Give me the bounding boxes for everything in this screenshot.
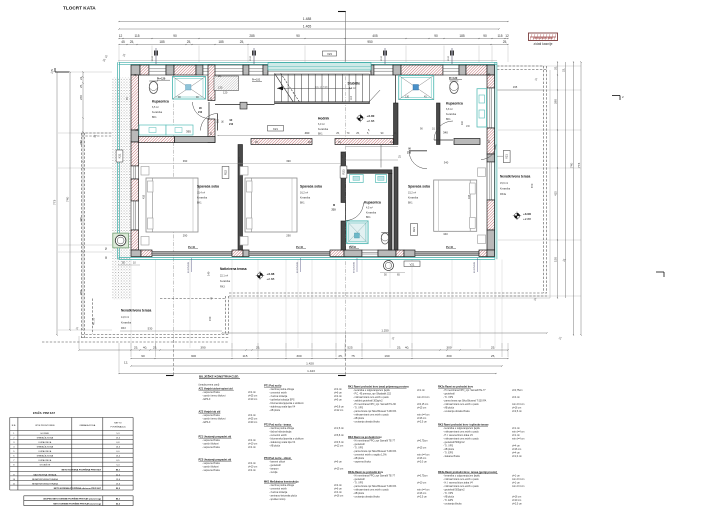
svg-text:min d=4 cm: min d=4 cm [417,396,429,399]
svg-text:285: 285 [249,34,255,38]
svg-text:25,: 25, [240,40,245,44]
svg-text:760: 760 [79,290,83,295]
svg-text:d=2,5 cm: d=2,5 cm [512,503,522,506]
svg-text:1.465: 1.465 [303,25,312,29]
svg-text:OBRADA PODA: OBRADA PODA [79,424,95,427]
svg-text:Spavaća soba: Spavaća soba [300,185,322,189]
svg-text:d=12 cm: d=12 cm [334,445,343,448]
svg-text:d=20 cm: d=20 cm [248,421,257,424]
svg-text:d=2,0 cm: d=2,0 cm [417,461,427,464]
svg-text:Keramika: Keramika [366,212,377,215]
svg-text:d=0,75cm: d=0,75cm [512,389,523,392]
svg-text:- AB ploča: - AB ploča [269,445,281,448]
svg-text:NETO KORISNA POVRŠINA PRVI KA: NETO KORISNA POVRŠINA PRVI KAT [62,468,102,471]
svg-text:BK1: BK1 [366,216,371,219]
svg-text:130: 130 [405,96,410,99]
svg-text:BK1: BK1 [152,116,157,119]
svg-text:6,5 m²: 6,5 m² [152,106,159,109]
svg-text:25,: 25, [338,141,342,144]
svg-text:10,: 10, [393,132,397,135]
svg-text:260: 260 [79,95,83,100]
svg-text:- vapnena žbuka: - vapnena žbuka [353,461,371,464]
svg-text:Keramika: Keramika [408,197,419,200]
svg-text:- spušteni strop: - spušteni strop [269,498,286,501]
svg-text:Keramika: Keramika [300,197,311,200]
svg-text:950: 950 [367,40,373,44]
svg-text:90: 90 [296,34,300,38]
svg-text:280: 280 [79,140,83,145]
svg-text:+2.88: +2.88 [367,119,375,123]
svg-text:290: 290 [286,233,291,237]
svg-text:90/25: 90/25 [250,55,252,61]
svg-text:Stubište: Stubište [348,82,361,86]
svg-text:22,: 22, [79,76,83,80]
svg-text:- vapnena žbuka: - vapnena žbuka [202,469,220,472]
svg-text:d=12 cm: d=12 cm [334,409,343,412]
svg-text:Keramika: Keramika [152,111,163,114]
svg-text:90: 90 [141,354,145,358]
svg-text:25,: 25, [397,346,401,350]
svg-text:1.488: 1.488 [303,17,312,21]
svg-text:Keramika: Keramika [121,322,132,325]
svg-text:Nenatkrivena terasa: Nenatkrivena terasa [121,309,152,313]
svg-text:- unutarnja obrada žbuka: - unutarnja obrada žbuka [443,410,470,413]
svg-text:R21: R21 [412,227,416,232]
svg-text:340: 340 [443,232,448,236]
svg-text:395: 395 [186,130,191,134]
svg-text:190: 190 [384,354,389,358]
svg-text:- unutarnja obrada žbuka: - unutarnja obrada žbuka [353,496,380,499]
svg-text:773: 773 [577,163,581,168]
svg-text:d=2,5 cm: d=2,5 cm [417,421,427,424]
svg-text:1.443: 1.443 [307,369,315,373]
svg-text:K21: K21 [273,127,278,131]
svg-text:12: 12 [505,34,509,38]
svg-text:280: 280 [553,99,557,104]
svg-text:300: 300 [446,354,451,358]
svg-text:d=10 cm: d=10 cm [417,482,426,485]
svg-text:POVRŠINA(m2): POVRŠINA(m2) [110,426,125,429]
svg-text:d=0,75cm: d=0,75cm [417,440,428,443]
svg-text:10,: 10, [432,128,436,131]
svg-text:BK1: BK1 [446,118,451,121]
svg-text:340: 340 [443,131,448,135]
svg-text:- EPS-F: - EPS-F [202,421,211,424]
svg-text:Keramika: Keramika [220,280,231,283]
svg-text:140: 140 [207,271,211,276]
svg-text:25,: 25, [187,40,192,44]
svg-text:25,: 25, [503,40,508,44]
svg-text:R23: R23 [342,169,346,174]
svg-text:RK3: RK3 [220,286,225,289]
svg-text:300: 300 [446,346,451,350]
svg-text:SPAVAĆA SOBA: SPAVAĆA SOBA [37,446,54,449]
svg-text:20,: 20, [308,141,312,144]
svg-text:V23: V23 [327,52,332,56]
svg-text:90: 90 [173,34,177,38]
svg-text:min d=4 cm: min d=4 cm [512,485,524,488]
svg-text:d=1,0 cm: d=1,0 cm [512,455,522,458]
svg-text:25,: 25, [134,346,138,350]
svg-text:5,: 5, [368,129,370,132]
svg-text:6,0 m²: 6,0 m² [318,123,325,126]
svg-text:110: 110 [350,96,353,100]
svg-text:25,: 25, [336,132,340,135]
svg-text:90: 90 [434,34,438,38]
svg-text:25,: 25, [256,346,260,350]
svg-text:d=15 cm: d=15 cm [417,407,426,410]
svg-text:d=10 cm: d=10 cm [248,398,257,401]
svg-text:490: 490 [305,131,310,135]
svg-text:- unutarnja žbuka: - unutarnja žbuka [443,503,462,506]
svg-text:M: M [333,204,335,207]
svg-text:Spavaća soba: Spavaća soba [408,185,430,189]
svg-text:KUPAONICA: KUPAONICA [38,459,51,462]
svg-text:25,: 25, [255,141,259,144]
svg-text:BK1: BK1 [197,202,202,205]
svg-text:OPIS PROSTORIJE: OPIS PROSTORIJE [35,425,55,427]
svg-text:25,: 25, [79,84,83,88]
svg-text:525: 525 [347,346,352,350]
svg-text:340: 340 [444,160,449,164]
svg-text:SPAVAĆA SOBA: SPAVAĆA SOBA [37,455,54,458]
svg-text:Keramika: Keramika [500,188,511,191]
svg-text:BK1: BK1 [300,202,305,205]
svg-text:R22: R22 [224,170,228,175]
svg-text:150: 150 [208,316,212,321]
svg-text:115: 115 [134,34,139,38]
svg-text:Nenatkrivena terasa: Nenatkrivena terasa [500,175,531,179]
svg-text:25,: 25, [491,346,495,350]
svg-text:d=2 cm: d=2 cm [248,446,256,449]
svg-text:773: 773 [53,200,57,205]
svg-text:210: 210 [332,209,337,212]
svg-text:d=5 cm: d=5 cm [334,399,342,402]
svg-text:115: 115 [497,34,502,38]
svg-text:- AB ploča: - AB ploča [269,409,281,412]
svg-text:TLOCRT KATA: TLOCRT KATA [63,6,96,11]
svg-text:BILJEŠKE KONSTRUKCIJE:: BILJEŠKE KONSTRUKCIJE: [199,374,239,379]
svg-text:5,: 5, [367,132,369,135]
svg-text:d=2,5 cm: d=2,5 cm [512,410,522,413]
svg-text:45: 45 [121,40,125,44]
svg-text:HODNIK: HODNIK [41,433,50,435]
svg-text:870: 870 [530,183,534,188]
svg-text:Kupaonica: Kupaonica [446,102,463,106]
svg-text:90 225/245: 90 225/245 [188,261,190,273]
svg-text:1.250: 1.250 [381,329,389,333]
svg-text:+2.88: +2.88 [267,277,275,281]
svg-text:415: 415 [143,194,146,199]
svg-text:SPAVAĆA SOBA: SPAVAĆA SOBA [37,437,54,440]
svg-text:110: 110 [217,118,220,123]
svg-text:NETTO: NETTO [114,423,122,425]
svg-text:740: 740 [66,197,70,202]
svg-text:d=16 cm: d=16 cm [334,495,343,498]
svg-text:25,: 25, [130,40,135,44]
svg-text:15,4 m²: 15,4 m² [197,192,205,195]
svg-text:M: M [409,148,411,151]
svg-text:d=0,75cm: d=0,75cm [417,475,428,478]
svg-text:390: 390 [286,159,291,163]
svg-text:90 225/245: 90 225/245 [297,261,299,273]
svg-text:KUPAONICA: KUPAONICA [38,450,51,453]
svg-text:- vlakana žbuka: - vlakana žbuka [443,455,460,458]
svg-text:405: 405 [372,34,378,38]
svg-text:290: 290 [183,233,188,237]
svg-text:6,8 m²: 6,8 m² [446,108,453,111]
svg-text:(izrada prema card): (izrada prema card) [199,384,220,387]
svg-text:d=6 cm: d=6 cm [334,461,342,464]
svg-text:22,1 m²: 22,1 m² [220,275,228,278]
svg-text:4,5 m²: 4,5 m² [366,207,373,210]
svg-text:RK3: RK3 [121,327,126,330]
svg-text:Keramika: Keramika [318,128,329,131]
svg-text:90: 90 [483,34,487,38]
svg-text:NENATKRIVENA TERASA: NENATKRIVENA TERASA [32,482,59,485]
svg-text:d=2 cm: d=2 cm [248,469,256,472]
svg-text:d=15 cm: d=15 cm [417,447,426,450]
svg-text:- unutarnja obrada žbuka: - unutarnja obrada žbuka [353,421,380,424]
svg-text:K31: K31 [118,153,122,158]
svg-text:90 225/245: 90 225/245 [354,261,356,273]
svg-text:25,: 25, [218,75,222,78]
svg-text:185: 185 [218,40,224,44]
svg-text:BK1: BK1 [318,133,323,136]
svg-text:210: 210 [198,111,203,114]
svg-text:390: 390 [200,346,205,350]
svg-text:90/25: 90/25 [381,55,383,61]
svg-text:d=2,5 cm: d=2,5 cm [417,496,427,499]
svg-text:+2.88: +2.88 [523,217,531,221]
svg-text:10x 17,7/28: 10x 17,7/28 [315,86,328,89]
svg-text:15,2 m²: 15,2 m² [408,192,416,195]
svg-text:+3.00: +3.00 [367,114,375,118]
svg-text:390: 390 [183,159,188,163]
svg-text:12,: 12, [124,361,128,365]
svg-text:150: 150 [553,257,557,262]
svg-text:Natkrivena terasa: Natkrivena terasa [220,267,247,271]
svg-text:415: 415 [553,191,557,196]
svg-text:40, 50: 40, 50 [92,317,96,325]
svg-text:90 225/245: 90 225/245 [474,261,476,273]
svg-text:BK1: BK1 [408,202,413,205]
svg-text:16,2 m²: 16,2 m² [300,192,308,195]
svg-text:5,4 m²: 5,4 m² [349,87,356,90]
svg-text:- EPS-F: - EPS-F [202,398,211,401]
svg-text:d=5,8 cm: d=5,8 cm [334,434,344,437]
svg-text:Spavaća soba: Spavaća soba [197,185,219,189]
svg-text:R.B.: R.B. [12,425,17,427]
svg-text:V21: V21 [410,263,415,267]
svg-text:25,: 25, [553,66,557,70]
svg-text:110: 110 [461,120,464,125]
svg-text:1.420: 1.420 [306,362,314,366]
svg-text:75: 75 [351,354,355,358]
svg-text:25,: 25, [338,354,342,358]
svg-text:Kupaonica: Kupaonica [364,201,381,205]
svg-text:Keramika: Keramika [446,113,457,116]
svg-text:Pr=100: Pr=100 [252,79,261,82]
svg-text:UKUPNO NETO KORISNE POVRŠINE P: UKUPNO NETO KORISNE POVRŠINE PRVI KAT (z… [43,498,101,501]
svg-text:25,: 25, [153,346,157,350]
svg-text:90/25: 90/25 [448,55,450,61]
svg-text:115: 115 [243,354,248,358]
svg-text:NETO KORISNA POVRŠINA otkriven: NETO KORISNA POVRŠINA otkrivena PRVI KAT [54,487,102,490]
svg-text:185: 185 [459,34,465,38]
svg-text:740: 740 [569,163,573,168]
svg-text:+3.08: +3.08 [523,212,531,216]
svg-text:Keramika: Keramika [197,197,208,200]
svg-text:40,: 40, [143,346,147,350]
svg-text:210: 210 [229,123,234,126]
svg-text:25,: 25, [356,132,360,135]
svg-text:+3.08: +3.08 [267,272,275,276]
svg-text:d=1 cm: d=1 cm [417,389,425,392]
svg-text:15,6 m²: 15,6 m² [500,182,508,185]
svg-text:40,: 40, [405,346,409,350]
svg-text:d=1,5 cm: d=1,5 cm [334,427,344,430]
svg-text:zidati kasnije: zidati kasnije [534,42,553,46]
svg-text:120: 120 [223,91,228,95]
svg-text:195: 195 [513,85,518,89]
svg-text:V21: V21 [505,154,509,159]
svg-text:12: 12 [119,34,123,38]
svg-text:d=15 cm: d=15 cm [334,468,343,471]
svg-text:530: 530 [148,327,153,331]
svg-text:RK3a: RK3a [500,193,507,196]
svg-text:Kupaonica: Kupaonica [152,100,169,104]
svg-text:10,: 10, [390,141,394,144]
svg-text:NETO KORISNE POVRŠINE PRVI KA: NETO KORISNE POVRŠINE PRVI KAT (otvoreno… [53,502,101,505]
svg-text:NENATKRIVENA TERASA: NENATKRIVENA TERASA [32,478,59,481]
svg-text:d=4 cm: d=4 cm [512,396,520,399]
svg-text:185: 185 [159,40,165,44]
svg-text:300: 300 [191,354,196,358]
svg-text:22,: 22, [561,68,565,72]
svg-text:25,: 25, [491,354,495,358]
svg-text:210: 210 [407,152,412,155]
svg-text:KUPAONICA: KUPAONICA [38,441,51,444]
svg-text:NATKRIVENA TERASA: NATKRIVENA TERASA [33,473,57,476]
svg-text:14,6 m²: 14,6 m² [121,316,129,319]
svg-text:STUBIŠTE: STUBIŠTE [39,464,50,467]
svg-text:- zemlja: - zemlja [269,471,278,474]
svg-text:min d=4 cm: min d=4 cm [512,438,524,441]
svg-text:Hodnik: Hodnik [318,117,329,121]
svg-text:415: 415 [468,194,471,199]
svg-text:- vapnena žbuka: - vapnena žbuka [202,446,220,449]
svg-text:415: 415 [79,217,83,222]
svg-text:90/25: 90/25 [152,55,154,61]
svg-text:130: 130 [218,86,223,90]
svg-text:300: 300 [296,354,301,358]
